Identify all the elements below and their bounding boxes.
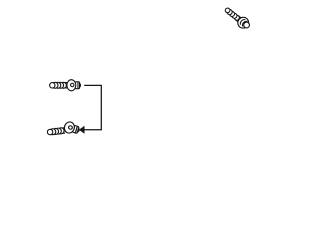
screw S2 (bottom left, tilted) [47,121,81,136]
B1 flange disc [236,15,251,30]
B1 thread coils [233,14,240,21]
B1 hex facet crease 1 [239,18,245,25]
B1 hex facet crease 2 [241,20,247,27]
bolt B1 (top right, angled up-left) [222,5,252,32]
B1 hex end face [243,21,251,29]
arrowhead pointing at S2 head [79,126,85,134]
leader line from S1 to S2 [84,85,101,129]
B1 shaft neck [235,16,241,22]
screw S1 (middle left) [50,80,81,91]
